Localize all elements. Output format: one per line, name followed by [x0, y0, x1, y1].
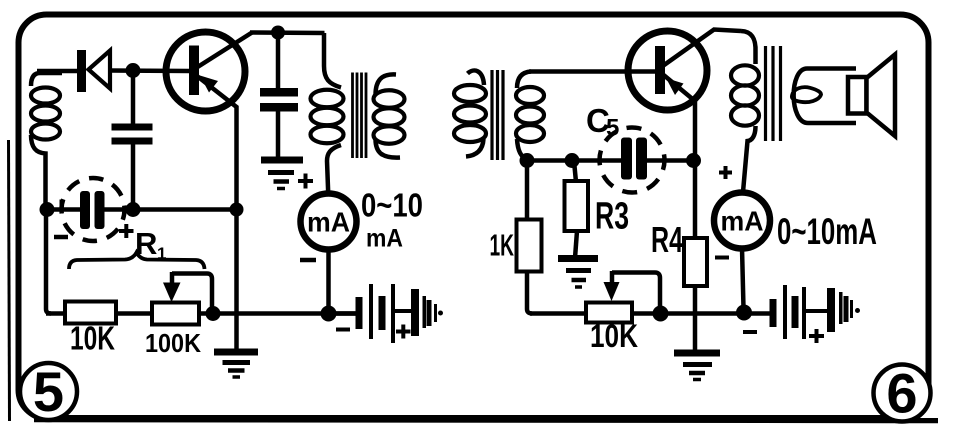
label minus under meter M1 — [300, 258, 316, 263]
label minus under meter M2 — [715, 256, 729, 260]
transistor Q2 emitter arrow — [666, 78, 684, 95]
wire: T2 secondary top to Q2 base — [529, 69, 656, 74]
transformer T1 primary bottom lead — [327, 145, 341, 193]
svg-text:mA: mA — [307, 207, 350, 238]
transistor Q1 emitter line to top rail — [196, 33, 252, 69]
speaker horn — [867, 55, 896, 137]
electrolytic capacitor C1 dashed circle — [62, 178, 125, 241]
label plus above meter M2 — [719, 166, 732, 179]
svg-text:R4: R4 — [651, 219, 683, 260]
node: battery row meter junction figure 6 — [736, 305, 752, 321]
node: bias row center — [126, 202, 141, 217]
diode D1 cathode bar — [77, 50, 86, 92]
svg-text:10K: 10K — [70, 320, 115, 357]
node: T2 bottom junction — [520, 153, 535, 168]
resistor 1K box — [517, 220, 542, 272]
node: diode/base junction — [126, 63, 141, 78]
ground G4 — [674, 353, 720, 380]
transformer T2 secondary coil — [516, 72, 544, 160]
transformer T3 primary coil — [731, 65, 759, 125]
battery B1 — [336, 284, 443, 343]
node: bias row right — [230, 203, 244, 217]
wire: R3 to ground — [575, 231, 577, 258]
ground G3 — [558, 259, 598, 288]
transformer T3 primary bottom lead — [743, 126, 756, 192]
transistor Q1 collector/ground vertical line — [197, 76, 237, 351]
circled figure number 6 — [874, 365, 931, 422]
capacitor C3 plates — [112, 124, 153, 131]
node: wiper junction — [206, 306, 221, 321]
wire: bias row right segment — [104, 207, 237, 212]
battery B2 — [770, 285, 861, 339]
svg-text:mA: mA — [366, 225, 403, 253]
transistor Q2 collector line down to R4 — [663, 75, 695, 239]
label plus of B2 — [809, 329, 824, 343]
svg-text:0~10mA: 0~10mA — [777, 211, 877, 252]
svg-text:100K: 100K — [145, 328, 201, 358]
wire: antenna row into diode — [37, 69, 78, 74]
transformer T1 secondary coil — [374, 74, 405, 157]
transformer T1 primary lead — [324, 33, 341, 88]
svg-text:1K: 1K — [490, 228, 515, 263]
resistor R4 box — [684, 238, 707, 286]
wire: junction down to capacitor — [131, 71, 136, 125]
wire: C2 to ground — [276, 112, 281, 158]
meter M1 circle — [301, 194, 357, 250]
transformer T1 primary coil — [311, 90, 344, 144]
wire: R4 to ground — [693, 286, 698, 352]
svg-text:mA: mA — [721, 206, 764, 237]
capacitor C2 plates — [260, 88, 298, 97]
node: battery row meter junction — [321, 306, 337, 322]
svg-text:10K: 10K — [590, 318, 638, 354]
ground G2 — [214, 352, 258, 377]
transformer T3 core — [766, 46, 781, 141]
page edge line bottom — [34, 420, 938, 421]
wire: down to resistor 1K — [525, 161, 530, 220]
transformer T2 primary coil (open winding) — [454, 70, 486, 156]
node: wiper junction figure 6 — [653, 306, 669, 322]
ground G1 — [261, 160, 303, 189]
svg-text:R3: R3 — [595, 196, 629, 238]
transistor Q1 emitter arrow — [200, 76, 218, 93]
capacitor C5 dashed circle — [600, 128, 665, 193]
node: collector junction — [686, 153, 701, 168]
transistor Q2 circle — [628, 31, 707, 110]
transformer T3 secondary loop — [792, 87, 821, 102]
wire: meter M1 to battery row — [326, 249, 331, 308]
label plus of B1 — [396, 325, 411, 339]
potentiometer 100K wiper wire — [172, 274, 212, 309]
svg-text:5: 5 — [33, 360, 64, 423]
diode D1 triangle — [89, 51, 111, 89]
capacitor C5 plates — [621, 138, 632, 180]
transistor Q2 base bar — [655, 46, 665, 94]
transistor Q2 emitter line to top — [662, 30, 741, 67]
transistor Q1 circle — [166, 32, 245, 111]
meter M2 circle — [714, 193, 770, 249]
node: top rail junction — [271, 26, 285, 40]
transformer T3 primary lead — [741, 31, 756, 64]
transformer T2 core — [492, 70, 503, 160]
label minus of C1 — [54, 235, 68, 240]
electrolytic capacitor C1 plates — [80, 191, 90, 229]
node: R3 junction — [565, 153, 580, 168]
page edge line left — [9, 140, 10, 421]
resistor R3 box — [565, 181, 589, 231]
label plus of C1 — [119, 224, 134, 238]
wire: bottom row figure 6 — [530, 311, 770, 316]
svg-text:R: R — [135, 226, 157, 261]
label minus of B2 — [743, 330, 757, 334]
resistor 10K box — [65, 302, 116, 324]
potentiometer 10K box — [586, 303, 632, 323]
label plus near G1 — [298, 174, 313, 189]
potentiometer 100K wiper arrow — [170, 272, 175, 287]
label minus of B1 — [336, 328, 350, 332]
brace for R1 — [69, 253, 205, 270]
coil L1 (antenna coil) — [31, 73, 62, 209]
potentiometer 10K wiper arrow — [610, 271, 615, 286]
wire: capacitor down to bias row — [131, 144, 136, 209]
transistor Q1 base bar — [189, 46, 199, 96]
speaker driver — [848, 77, 867, 114]
svg-text:6: 6 — [886, 362, 917, 425]
wire: rail down to bypass cap C2 — [276, 33, 281, 90]
wire: left column down — [46, 213, 51, 314]
wire: 1K to bottom row — [527, 271, 532, 314]
wire: C5 to collector line — [646, 158, 695, 163]
svg-text:0~10: 0~10 — [361, 187, 423, 224]
wire: bottom row figure 5 — [46, 311, 357, 316]
circled figure number 5 — [20, 363, 77, 420]
potentiometer 10K wiper wire — [612, 273, 660, 309]
wire: diode to transistor base — [110, 68, 190, 73]
node: bias row left — [40, 202, 55, 217]
wire: emitter row figure 6 — [527, 158, 622, 163]
wire: top rail — [250, 30, 325, 35]
potentiometer 100K box — [152, 303, 199, 325]
wire: R3 junction to resistor R3 — [574, 161, 576, 182]
svg-text:1: 1 — [157, 244, 166, 263]
transformer T1 core — [353, 73, 367, 159]
wire: meter M2 to battery row — [742, 248, 744, 308]
electrolytic capacitor C1 plus tick — [60, 200, 64, 214]
wire: bias row left segment — [46, 207, 81, 212]
transformer T3 secondary (voice coil) — [794, 69, 856, 124]
